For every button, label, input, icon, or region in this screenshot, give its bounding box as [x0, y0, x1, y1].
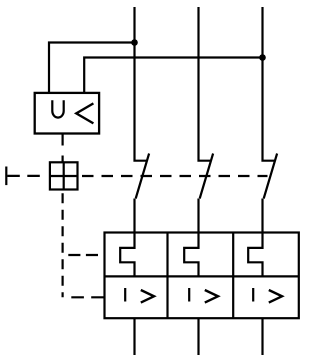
manual operator bar [5, 167, 7, 186]
wire phase L1 upper [135, 7, 148, 161]
junction dot on L1 [131, 39, 138, 46]
overcurrent release I> pole 3 [253, 288, 282, 303]
overcurrent release I> pole 2 [189, 288, 218, 303]
trip block row divider [105, 275, 299, 277]
wire terminal bottom pole 2 [197, 318, 199, 355]
wire from L1 junction to U< box [49, 43, 135, 94]
junction dot on L3 [259, 54, 266, 61]
trip unit block outline [105, 233, 299, 319]
dashed trip bar across contacts [82, 175, 268, 177]
thermal release pole 1 [120, 232, 134, 277]
thermal release pole 2 [184, 232, 198, 277]
undervoltage release U< box [35, 93, 99, 134]
wire terminal bottom pole 3 [261, 318, 263, 355]
wire phase L3 upper [263, 7, 276, 161]
dashed link to thermal row [68, 254, 105, 256]
breaker contact pole 3 [263, 154, 278, 234]
trip block column dividers [168, 233, 234, 319]
dashed link operator to latch [7, 175, 43, 177]
wire phase L2 upper [199, 7, 212, 161]
breaker contact pole 2 [199, 154, 214, 234]
dashed link latch down [61, 193, 63, 297]
breaker contact pole 1 [135, 154, 150, 234]
thermal release pole 3 [248, 232, 262, 277]
wire terminal bottom pole 1 [133, 318, 135, 355]
wire from L3 junction to U< box [84, 58, 262, 94]
dashed trip link U< box to latch [61, 134, 63, 163]
label < chevron [76, 103, 93, 123]
mechanical latch box [50, 162, 78, 189]
overcurrent release I> pole 1 [125, 288, 154, 303]
dashed link to magnetic row [71, 296, 104, 298]
label U [52, 100, 63, 117]
